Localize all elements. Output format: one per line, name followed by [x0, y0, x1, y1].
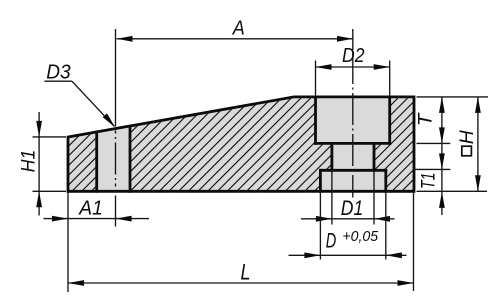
counterbore D2 left wall	[314, 97, 317, 143]
dim H1	[33, 112, 67, 216]
svg-text:T1: T1	[418, 173, 440, 190]
recess D top edge	[320, 169, 385, 172]
part outline	[68, 97, 414, 191]
dim A1	[44, 216, 150, 222]
svg-text:A: A	[232, 17, 245, 39]
hole D1 left wall	[330, 143, 333, 170]
dim D2	[316, 61, 390, 97]
centerline hole D3	[115, 29, 117, 227]
dim D1	[301, 171, 395, 225]
hole D3 right wall	[129, 126, 132, 191]
svg-text:H1: H1	[18, 150, 40, 173]
part body gray fill	[68, 97, 414, 191]
label square-H	[462, 146, 472, 156]
hole D1 right wall	[373, 143, 376, 170]
dim H	[417, 97, 489, 191]
dim T / T1 vertical line	[415, 97, 450, 215]
svg-text:L: L	[241, 260, 251, 285]
svg-text:A1: A1	[78, 198, 102, 220]
counterbore D2 right wall	[388, 97, 391, 143]
hole D3 left wall	[95, 132, 98, 191]
centerline bore D2/D1	[352, 29, 354, 198]
counterbore D2 floor	[316, 142, 390, 145]
dim A line	[117, 36, 354, 42]
leader D3	[44, 81, 115, 127]
svg-text:H: H	[457, 130, 478, 144]
svg-text:D: D	[326, 229, 337, 252]
recess D left wall	[319, 170, 322, 191]
svg-text:D3: D3	[46, 62, 70, 84]
svg-text:D2: D2	[342, 45, 365, 67]
hatching middle band	[0, 90, 500, 196]
hatching left band	[0, 90, 500, 196]
hatching right band	[0, 90, 500, 196]
recess D right wall	[384, 170, 387, 191]
svg-text:+0,05: +0,05	[342, 228, 378, 245]
dim L	[68, 193, 414, 293]
svg-text:D1: D1	[341, 197, 364, 220]
dim D	[289, 193, 407, 260]
svg-text:T: T	[415, 112, 436, 126]
